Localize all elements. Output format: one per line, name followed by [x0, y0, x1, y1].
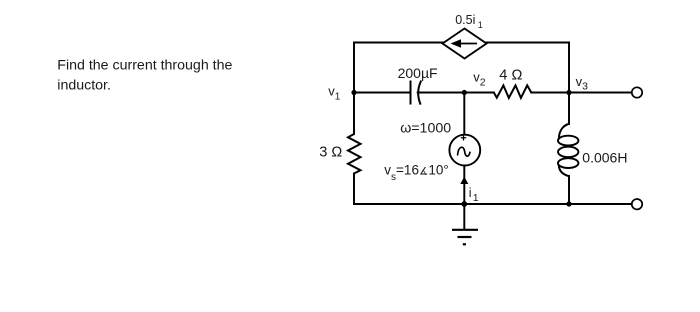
svg-text:3 Ω: 3 Ω	[319, 145, 342, 161]
svg-text:1: 1	[473, 192, 479, 204]
svg-text:Find the current through the: Find the current through the	[57, 58, 232, 74]
svg-text:i: i	[469, 186, 472, 200]
svg-text:4 Ω: 4 Ω	[499, 68, 522, 84]
svg-text:0.5i: 0.5i	[455, 13, 475, 27]
svg-text:200µF: 200µF	[398, 65, 438, 81]
svg-text:1: 1	[478, 20, 483, 30]
svg-text:0.006H: 0.006H	[582, 150, 627, 166]
svg-text:inductor.: inductor.	[57, 77, 111, 93]
svg-text:ω=1000: ω=1000	[400, 121, 451, 137]
